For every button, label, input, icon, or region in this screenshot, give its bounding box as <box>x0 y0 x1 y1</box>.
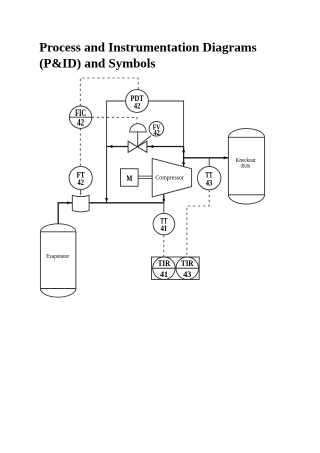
svg-text:42: 42 <box>77 118 84 128</box>
motor shaft coupling <box>138 176 152 178</box>
wire: PDT impulse line left tap <box>107 101 126 147</box>
wire: signal dashed FIC top loop to PDT <box>80 78 138 106</box>
wire: TT41 tap stem <box>163 203 165 214</box>
flow arrow on discharge riser upper <box>182 149 185 152</box>
svg-text:42: 42 <box>153 129 160 137</box>
svg-text:Process and Instrumentation Di: Process and Instrumentation Diagrams <box>39 39 257 54</box>
svg-text:Compressor: Compressor <box>155 174 184 181</box>
control valve FV-42 diaphragm actuator <box>130 124 146 147</box>
svg-text:M: M <box>126 174 132 183</box>
svg-text:41: 41 <box>161 223 168 233</box>
svg-text:TIR: TIR <box>181 259 194 268</box>
flow arrow on recycle line left segment <box>109 145 113 148</box>
wire: TT43 tap stem <box>208 158 210 167</box>
wire: signal dashed FIC down to FT <box>79 128 81 166</box>
wire: PDT impulse line right tap <box>148 101 183 147</box>
instrument bubble TT 43 <box>198 166 221 189</box>
wire: compressor suction riser <box>163 194 165 203</box>
evaporator vessel <box>40 224 76 297</box>
wire: recycle line through valve <box>107 146 184 148</box>
wire: signal dashed FIC to valve actuator <box>92 117 137 122</box>
svg-text:42: 42 <box>134 100 141 110</box>
flow arrow on discharge riser lower <box>182 161 185 164</box>
flow arrow into compressor suction <box>162 197 165 200</box>
flow arrow on suction line at venturi <box>67 201 71 204</box>
instrument bubble PDT 42 <box>126 90 149 113</box>
svg-text:41: 41 <box>160 270 168 279</box>
svg-text:43: 43 <box>206 177 213 187</box>
shared display TIR 41 / TIR 43 <box>152 257 200 280</box>
flow arrow on recycle line right of valve <box>149 145 153 148</box>
motor M <box>121 169 139 187</box>
title: Process and Instrumentation Diagrams (P&ID) and Symbols <box>39 39 257 70</box>
svg-text:TIR: TIR <box>158 259 171 268</box>
control valve FV-42 body <box>128 141 147 152</box>
instrument bubble FIC 42 <box>69 106 91 128</box>
compressor <box>152 158 191 197</box>
flow arrow down on recycle downcomer <box>105 198 108 201</box>
flow element venturi FE-42 <box>72 195 89 212</box>
wire: recycle downcomer to suction line <box>106 147 108 203</box>
instrument bubble TT 41 <box>153 213 175 235</box>
wire: suction line from evaporator <box>58 203 164 224</box>
wire: compressor discharge riser <box>183 147 185 167</box>
knockout drum vessel <box>228 129 264 205</box>
flow arrow into knockout drum <box>224 156 229 159</box>
svg-text:43: 43 <box>183 270 191 279</box>
svg-text:drum: drum <box>241 164 251 170</box>
wire: signal dashed TT43 to TIR43 <box>187 190 209 257</box>
svg-text:42: 42 <box>78 177 85 187</box>
wire: signal dashed TT41 to TIR41 <box>163 235 165 257</box>
svg-text:Evaporator: Evaporator <box>46 253 69 260</box>
instrument bubble FT 42 <box>69 166 92 189</box>
instrument bubble FV 42 with leader line <box>138 122 164 147</box>
wire: discharge line to knockout drum <box>184 157 229 159</box>
svg-text:(P&ID) and Symbols: (P&ID) and Symbols <box>39 56 155 71</box>
wire: FT tap stem <box>80 190 82 196</box>
